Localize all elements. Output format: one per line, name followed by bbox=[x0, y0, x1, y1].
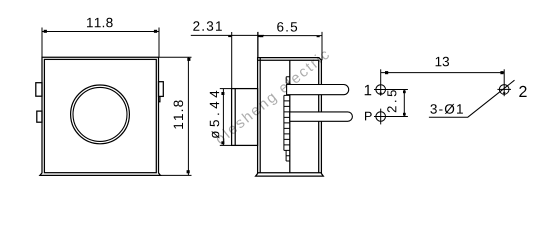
side view body outer outline bbox=[256, 58, 324, 177]
dimension 2.31 label bbox=[193, 21, 222, 31]
front view left tab lower bbox=[37, 111, 42, 122]
front view body outer outline bbox=[40, 57, 160, 175]
dimension 2.31 extension and dimension lines bbox=[191, 32, 264, 89]
pin label 1 bbox=[365, 85, 372, 95]
dimension 6.5 extension and dimension lines bbox=[258, 32, 322, 60]
side view body inner right line bbox=[318, 60, 320, 173]
front view rotor circle inner bbox=[73, 87, 127, 141]
front view left tab upper bbox=[36, 83, 42, 97]
front view right tab bbox=[159, 82, 164, 97]
front view right tab step bbox=[159, 96, 160, 101]
dimension width 11.8 arrows bbox=[44, 30, 47, 33]
dimension height 11.8 label (rotated) bbox=[174, 100, 184, 128]
watermark "olesheng electric" bbox=[214, 48, 332, 147]
dimension 2.5 square terminators bbox=[403, 91, 406, 94]
side view shaft bbox=[232, 89, 258, 146]
mounting hole 2 bbox=[497, 85, 511, 95]
side view body inner left line bbox=[259, 58, 261, 173]
side view lower mounting pin bbox=[290, 112, 353, 121]
side view body inner top line bbox=[258, 59, 319, 61]
dimension 13 square terminators bbox=[385, 71, 388, 74]
dimension 6.5 label bbox=[277, 22, 297, 32]
side view terminal ladder bbox=[284, 95, 290, 161]
dimension 2.31 arrows bbox=[228, 36, 231, 38]
dimension width 11.8 label bbox=[87, 18, 113, 28]
hole spec label 3-dia1 bbox=[430, 104, 463, 114]
dimension dia 5.44 label (rotated) bbox=[210, 91, 220, 139]
pin label 2 bbox=[519, 86, 526, 97]
hole 1 position arrow bbox=[379, 93, 382, 96]
pin label P bbox=[365, 112, 372, 121]
dimension 2.5 label (rotated) bbox=[387, 90, 396, 112]
dimension 13 extension and dimension lines bbox=[381, 69, 505, 96]
dimension 13 label bbox=[436, 57, 449, 67]
hole 2 position arrow bbox=[503, 92, 506, 95]
side view body inner bottom line bbox=[258, 172, 322, 174]
side view shaft tip inner line bbox=[234, 89, 236, 146]
dimension width 11.8 extension lines bbox=[42, 28, 159, 58]
dimension 2.5 dimension line bbox=[403, 90, 405, 117]
dimension height 11.8 extension lines bbox=[159, 57, 192, 175]
side view upper slot cell bbox=[286, 77, 290, 84]
dimension dia 5.44 extension and dimension lines bbox=[220, 89, 232, 146]
mounting hole P bbox=[374, 109, 408, 125]
hole spec leader line bbox=[429, 80, 515, 117]
mounting hole 1 bbox=[374, 85, 408, 95]
dimension dia 5.44 arrows bbox=[221, 92, 224, 95]
dimension height 11.8 arrows bbox=[187, 58, 190, 61]
side view internal divider bbox=[289, 60, 291, 173]
side view upper mounting pin bbox=[287, 85, 349, 95]
dimension 6.5 arrows bbox=[260, 36, 263, 38]
front view rotor circle outer bbox=[71, 85, 130, 144]
front view body inner outline bbox=[44, 59, 156, 172]
